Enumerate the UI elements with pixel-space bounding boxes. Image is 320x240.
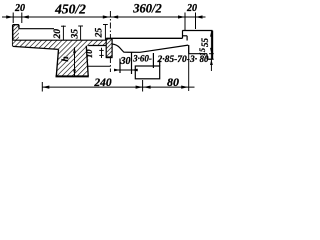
svg-text:20: 20 xyxy=(186,3,197,14)
ledge top line xyxy=(19,28,54,30)
arrow 240 left xyxy=(42,86,49,89)
flange strip (hatched wedge) xyxy=(13,40,107,76)
line left of box xyxy=(88,65,111,67)
svg-text:20: 20 xyxy=(53,29,63,40)
svg-text:10: 10 xyxy=(84,49,94,58)
arrow left 20 left-pointing xyxy=(22,15,29,18)
svg-text:25: 25 xyxy=(95,28,105,39)
right end step/notch xyxy=(182,30,184,38)
rib outline xyxy=(56,49,58,76)
svg-text:2·85-70-3·: 2·85-70-3· xyxy=(157,55,198,65)
svg-text:80: 80 xyxy=(167,75,179,89)
right half top line xyxy=(106,37,182,39)
box (frame in right rib) xyxy=(135,66,159,79)
centerline bar thick bottom xyxy=(106,56,113,58)
arrow 80 left xyxy=(144,86,151,89)
flange underside curve right half xyxy=(112,44,188,52)
extension line left-20 right tick xyxy=(21,13,23,24)
extension tick x42 xyxy=(41,82,43,92)
svg-text:20: 20 xyxy=(14,3,25,14)
extension line right-20 right tick xyxy=(195,13,197,30)
30 dim line xyxy=(114,69,138,71)
vertical dim 25 xyxy=(104,24,106,40)
svg-text:30: 30 xyxy=(120,56,131,67)
top dimension line xyxy=(2,16,206,18)
arrow 240 right xyxy=(136,86,143,89)
arrow right 20 right-pointing xyxy=(178,15,185,18)
55 / 15 dims right xyxy=(210,31,212,71)
vertical dim 35 xyxy=(80,26,82,41)
arrow 80 right xyxy=(181,86,188,89)
svg-text:55: 55 xyxy=(200,38,210,48)
arrow right 20 left-pointing xyxy=(196,15,203,18)
svg-text:360/2: 360/2 xyxy=(132,2,161,16)
centerline bar (hatched) xyxy=(106,39,112,57)
extension line right-20 left tick xyxy=(184,13,186,31)
svg-text:450/2: 450/2 xyxy=(54,1,86,16)
extension tick x142.6 xyxy=(142,80,144,92)
svg-text:15: 15 xyxy=(198,48,207,56)
svg-text:240: 240 xyxy=(93,77,112,89)
svg-text:35: 35 xyxy=(70,29,80,40)
right edge xyxy=(212,31,214,60)
bottom dimension line 240/80 xyxy=(42,86,194,88)
h dim in rib xyxy=(74,47,76,75)
extension line bearing edge xyxy=(188,45,190,91)
spacing ticks xyxy=(119,59,121,74)
arrow 450/2 right-pointing at centerline xyxy=(103,15,110,18)
centerline dash-dot xyxy=(109,11,111,72)
left end bar (hatched upstand) xyxy=(13,25,19,41)
extension line left-20 left tick xyxy=(12,13,14,24)
svg-text:h: h xyxy=(61,56,71,61)
vertical dim 20 xyxy=(62,26,64,41)
underside right of rib xyxy=(88,45,106,47)
bearing bottom xyxy=(189,53,207,55)
svg-text:3·60-: 3·60- xyxy=(132,54,152,64)
dim 10 line and ticks xyxy=(101,48,103,58)
arrow left 20 right-pointing xyxy=(6,15,13,18)
arrow 360/2 left-pointing at centerline xyxy=(111,15,118,18)
